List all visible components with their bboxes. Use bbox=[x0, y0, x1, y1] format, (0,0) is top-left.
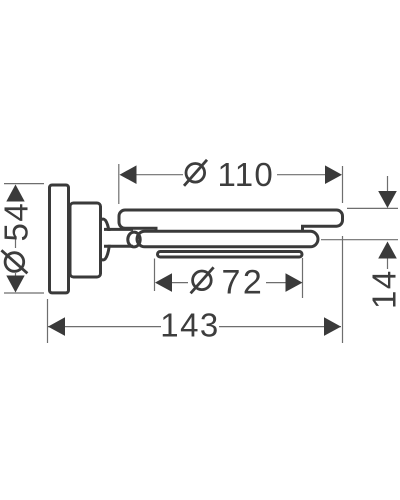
svg-text:143: 143 bbox=[160, 306, 220, 343]
extension line left bottom (143 left) bbox=[47, 299, 49, 343]
label Ø110 diameter symbol bbox=[184, 160, 207, 186]
dimension lines bbox=[16, 175, 388, 327]
extension line right of dish lower (143 right) bbox=[342, 236, 344, 343]
dimension line Ø110 right segment bbox=[277, 174, 326, 176]
arm bbox=[104, 231, 134, 245]
dimension line 14 below arrow bbox=[387, 258, 389, 269]
dimension line Ø110 left segment bbox=[136, 174, 183, 176]
extension line Ø72 right bbox=[302, 258, 304, 298]
arrow 143 right bbox=[324, 317, 341, 336]
thin extension lines bbox=[4, 164, 398, 343]
dimension line 143 left segment bbox=[48, 326, 161, 328]
extension line right of dish upper (Ø110 right) bbox=[342, 166, 344, 203]
extension line Ø72 left bbox=[154, 259, 156, 292]
arrow Ø110 right bbox=[325, 165, 342, 184]
svg-text:54: 54 bbox=[0, 202, 35, 242]
dimension line 143 right segment bbox=[219, 326, 341, 328]
soap dish plate Ø110 bbox=[119, 210, 343, 232]
arrow Ø72 left bbox=[155, 273, 172, 292]
svg-text:14: 14 bbox=[366, 269, 400, 309]
arm ball joint bbox=[128, 232, 140, 247]
extension line 14 bottom bbox=[321, 239, 398, 241]
arrow Ø110 left bbox=[120, 165, 137, 184]
extension line bottom of wall plate (54 bottom) bbox=[4, 292, 44, 294]
wall plate bbox=[50, 185, 69, 293]
dish foot Ø72 bbox=[158, 252, 303, 258]
arrow Ø72 right bbox=[286, 273, 303, 292]
dimension labels bbox=[0, 156, 400, 343]
dimension line 14 above arrow bbox=[387, 176, 389, 192]
label Ø72 diameter symbol bbox=[191, 267, 214, 293]
arrow 14 up bbox=[378, 242, 397, 259]
dimension line 54 segment above bottom arrow bbox=[15, 273, 17, 277]
arrow 54 bottom bbox=[6, 276, 24, 293]
holder ring bbox=[137, 231, 318, 247]
dimension line Ø72 left segment bbox=[171, 282, 188, 284]
dimension arrows bbox=[6, 165, 397, 336]
arrow 54 top bbox=[6, 185, 24, 202]
arrow 14 down bbox=[378, 191, 397, 208]
extension line top of wall plate (54 top) bbox=[4, 183, 44, 185]
wall body bbox=[70, 203, 101, 277]
arrow 143 left bbox=[48, 317, 65, 336]
dimension line Ø72 right segment bbox=[266, 282, 287, 284]
fixture outline drawing bbox=[50, 185, 343, 293]
label Ø54 symbol and digits (rotated) bbox=[0, 202, 35, 274]
extension line 14 top bbox=[347, 207, 398, 209]
svg-text:110: 110 bbox=[218, 156, 275, 193]
extension line left of dish (Ø110 left) bbox=[118, 164, 120, 204]
trumpet flange of arm bbox=[97, 219, 110, 260]
dimension line 54 segment below text bbox=[15, 237, 17, 248]
svg-text:72: 72 bbox=[222, 264, 265, 302]
